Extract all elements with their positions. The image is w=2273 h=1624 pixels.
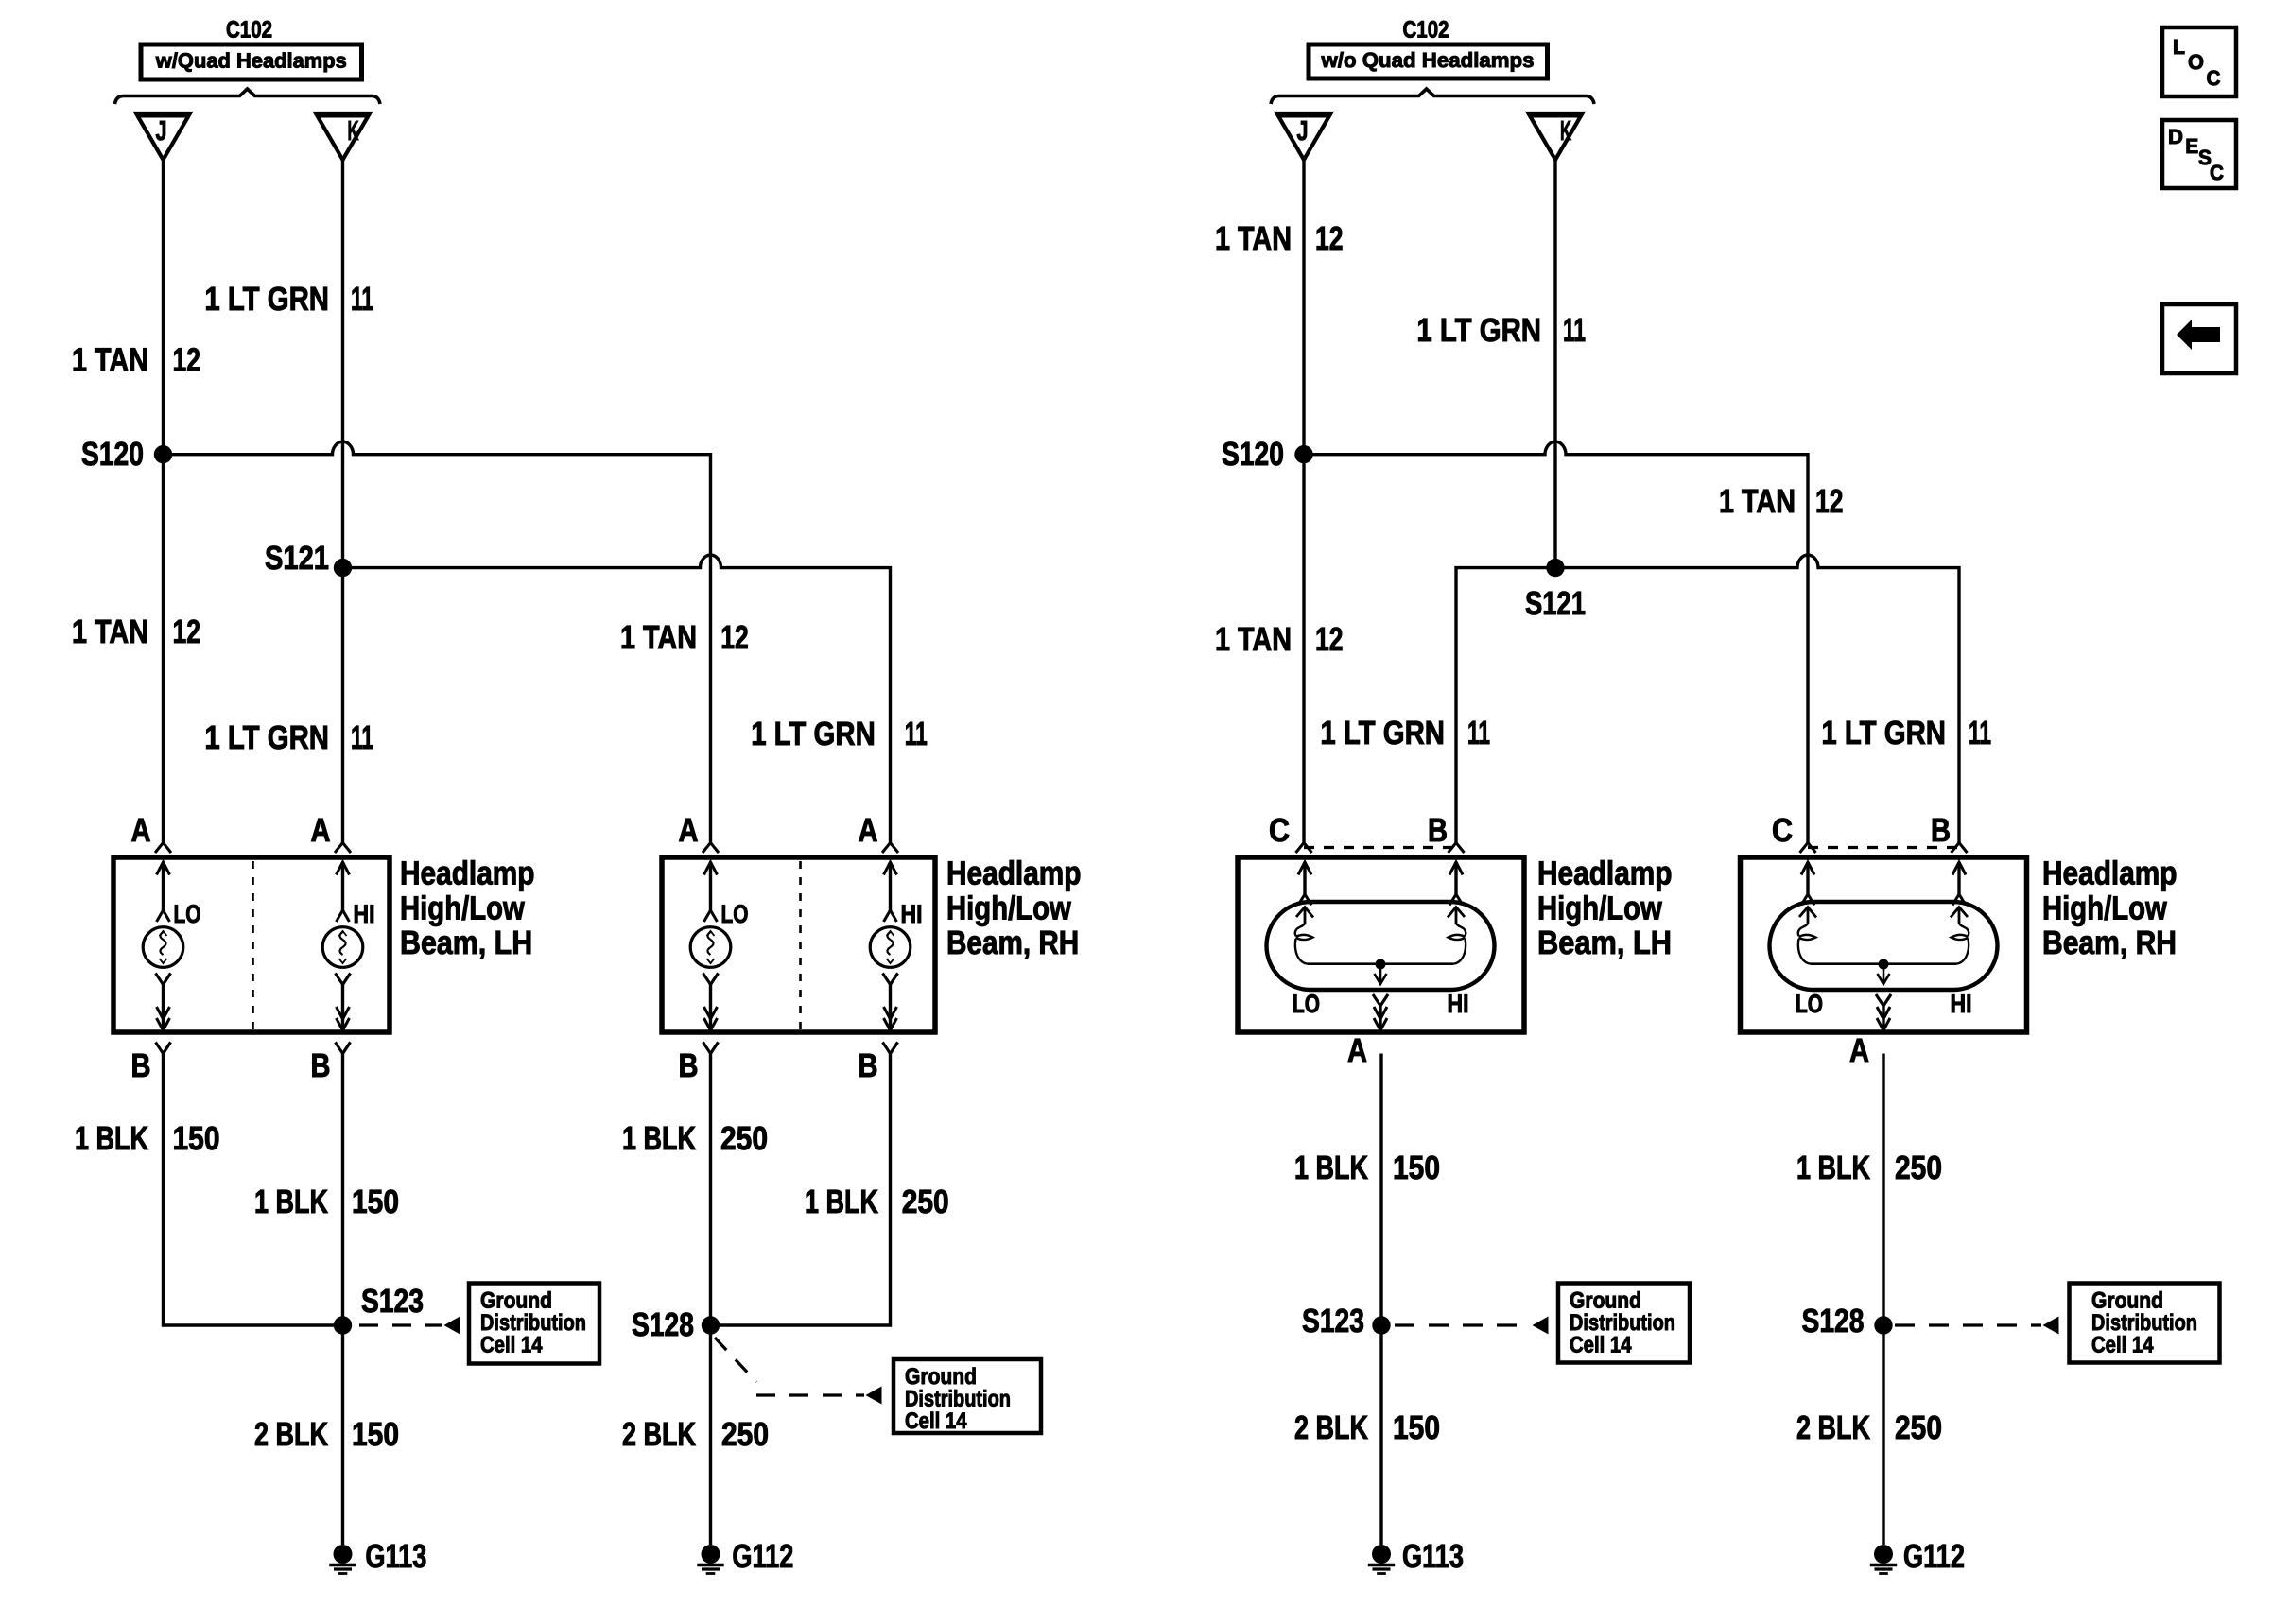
svg-text:2 BLK: 2 BLK: [622, 1416, 696, 1453]
svg-text:L: L: [2173, 35, 2185, 59]
svg-text:11: 11: [351, 281, 373, 318]
dashed pin link C-B (right RH lamp): [1808, 846, 1959, 849]
connector pin K (right): [1529, 113, 1583, 160]
svg-text:w/o Quad Headlamps: w/o Quad Headlamps: [1320, 48, 1534, 72]
wire S121 left branch to LH pin B column: [1456, 568, 1555, 843]
svg-text:11: 11: [905, 716, 928, 752]
connector box w/Quad Headlamps: [141, 44, 362, 79]
brace under C102 (left): [115, 89, 381, 104]
svg-text:S121: S121: [1525, 585, 1586, 622]
svg-text:B: B: [311, 1047, 331, 1084]
svg-text:2 BLK: 2 BLK: [1294, 1409, 1368, 1446]
svg-text:LO: LO: [1293, 990, 1320, 1018]
DESC icon box: [2162, 120, 2236, 188]
wire J to headlamp LH pin A (1 TAN 12): [162, 160, 165, 843]
svg-text:Cell 14: Cell 14: [1570, 1333, 1632, 1358]
splice S128 (right): [1874, 1316, 1892, 1334]
ground distribution cell 14 box (right LH): [1558, 1284, 1690, 1363]
headlamp High/Low Beam LH (single): [1238, 857, 1524, 1032]
svg-text:Cell 14: Cell 14: [2091, 1333, 2154, 1358]
svg-text:1 LT GRN: 1 LT GRN: [204, 281, 329, 318]
svg-text:Headlamp: Headlamp: [1537, 855, 1673, 892]
ground distribution cell 14 box (left): [469, 1284, 599, 1364]
svg-text:Beam, LH: Beam, LH: [400, 924, 532, 961]
svg-text:250: 250: [721, 1416, 769, 1453]
svg-text:150: 150: [352, 1416, 399, 1453]
ground G113 (left): [334, 1545, 353, 1564]
svg-text:150: 150: [352, 1183, 399, 1220]
svg-text:LO: LO: [174, 900, 201, 928]
headlamp High/Low Beam LH (quad): [113, 857, 390, 1032]
svg-text:High/Low: High/Low: [1537, 890, 1662, 926]
svg-text:Beam, LH: Beam, LH: [1537, 924, 1672, 961]
svg-text:12: 12: [720, 619, 749, 656]
svg-text:C: C: [2210, 161, 2224, 184]
svg-text:J: J: [1297, 116, 1309, 147]
svg-text:C: C: [1269, 812, 1290, 849]
ground distribution cell 14 box (right RH): [2070, 1284, 2220, 1363]
svg-text:150: 150: [1393, 1149, 1440, 1186]
svg-text:250: 250: [1895, 1409, 1942, 1446]
svg-text:HI: HI: [901, 900, 923, 928]
svg-text:A: A: [859, 812, 878, 849]
wire K to headlamp LH pin A (1 LT GRN 11): [341, 160, 344, 843]
connector pin K (left): [316, 113, 370, 160]
svg-text:S120: S120: [81, 436, 144, 473]
svg-text:11: 11: [1563, 312, 1586, 349]
svg-text:1 TAN: 1 TAN: [1215, 220, 1292, 257]
dashed reference arrow S123 right: [1395, 1323, 1531, 1326]
wire K down to splice S121 (1 LT GRN 11): [1553, 160, 1556, 568]
ground distribution cell 14 box (quad): [894, 1359, 1041, 1433]
svg-text:S123: S123: [1302, 1303, 1364, 1339]
wire LH-HI pin B to S123/G113 (1 BLK 150): [336, 1043, 351, 1054]
svg-text:O: O: [2188, 50, 2204, 74]
svg-text:11: 11: [351, 719, 373, 756]
svg-text:Cell 14: Cell 14: [480, 1333, 543, 1358]
wire J to headlamp LH pin C (1 TAN 12): [1302, 160, 1305, 843]
wire LH pin A to S123/G113 (1 BLK 150): [1379, 1054, 1382, 1546]
svg-text:G112: G112: [732, 1538, 793, 1575]
svg-text:250: 250: [720, 1120, 768, 1157]
svg-text:LO: LO: [721, 900, 749, 928]
svg-text:Headlamp: Headlamp: [400, 855, 535, 892]
wire RH-HI pin B to S128 (1 BLK 250): [883, 1043, 898, 1054]
svg-text:A: A: [1347, 1032, 1367, 1069]
connector pin J (right): [1277, 113, 1331, 160]
svg-text:B: B: [1428, 812, 1448, 849]
svg-text:A: A: [131, 812, 151, 849]
svg-text:1 LT GRN: 1 LT GRN: [1320, 715, 1445, 752]
svg-text:HI: HI: [354, 900, 375, 928]
svg-text:1 BLK: 1 BLK: [805, 1183, 878, 1220]
svg-text:1 TAN: 1 TAN: [620, 619, 697, 656]
svg-text:E: E: [2185, 134, 2198, 158]
wire S120 to RH lamp pin C column (hops over K wire): [1304, 441, 1808, 842]
wire S121 to RH lamp HI column (hops over LO column): [343, 555, 891, 842]
brace under C102 (right): [1271, 89, 1594, 104]
dashed pin link C-B (right LH lamp): [1304, 846, 1456, 849]
wire S120 to RH lamp LO column (hops over K wire): [164, 441, 711, 842]
svg-text:250: 250: [1895, 1149, 1942, 1186]
svg-text:1 BLK: 1 BLK: [254, 1183, 328, 1220]
splice S121 (left): [334, 559, 352, 577]
svg-text:Cell 14: Cell 14: [905, 1408, 967, 1434]
splice S120 (right): [1294, 445, 1312, 463]
svg-text:A: A: [679, 812, 699, 849]
svg-text:1 LT GRN: 1 LT GRN: [1416, 312, 1541, 349]
svg-text:12: 12: [1815, 483, 1844, 520]
ground G112 (quad): [702, 1545, 720, 1564]
svg-text:1 LT GRN: 1 LT GRN: [1821, 715, 1946, 752]
svg-text:12: 12: [1315, 621, 1344, 658]
wire LH-LO pin B to S123 (1 BLK 150): [156, 1043, 171, 1054]
svg-text:1 TAN: 1 TAN: [72, 613, 148, 650]
svg-text:w/Quad Headlamps: w/Quad Headlamps: [155, 49, 347, 73]
svg-text:1 BLK: 1 BLK: [1796, 1149, 1870, 1186]
svg-text:J: J: [156, 116, 167, 147]
svg-text:B: B: [1931, 812, 1951, 849]
svg-text:1 LT GRN: 1 LT GRN: [204, 719, 329, 756]
svg-text:11: 11: [1969, 715, 1991, 752]
headlamp High/Low Beam RH (single): [1741, 857, 2027, 1032]
svg-text:2 BLK: 2 BLK: [1796, 1409, 1870, 1446]
connector pin J (left): [136, 113, 190, 160]
svg-text:250: 250: [902, 1183, 949, 1220]
svg-text:B: B: [859, 1047, 878, 1084]
svg-text:1 TAN: 1 TAN: [1215, 621, 1292, 658]
wire RH pin A to S128/G112 (1 BLK 250): [1882, 1054, 1884, 1546]
svg-text:HI: HI: [1448, 990, 1469, 1018]
svg-text:1 TAN: 1 TAN: [72, 342, 148, 379]
svg-text:B: B: [131, 1047, 151, 1084]
svg-text:C: C: [1772, 812, 1793, 849]
svg-text:Beam, RH: Beam, RH: [946, 924, 1079, 961]
dashed reference arrow S128 right: [1895, 1323, 2041, 1326]
svg-text:12: 12: [1315, 220, 1344, 257]
svg-text:12: 12: [173, 613, 201, 650]
svg-text:150: 150: [173, 1120, 220, 1157]
splice S120 (left): [154, 445, 172, 463]
dashed reference arrow S128 to Ground Distribution (diagonal): [715, 1338, 756, 1382]
svg-text:S128: S128: [632, 1306, 694, 1343]
svg-text:S123: S123: [361, 1283, 424, 1320]
svg-text:S121: S121: [265, 540, 329, 577]
splice S128 (quad): [702, 1316, 720, 1334]
svg-text:Headlamp: Headlamp: [2042, 855, 2178, 892]
svg-text:C102: C102: [226, 17, 272, 43]
svg-text:K: K: [348, 116, 359, 147]
svg-text:High/Low: High/Low: [946, 890, 1071, 926]
svg-text:C: C: [2207, 66, 2221, 90]
headlamp High/Low Beam RH (quad): [662, 857, 935, 1032]
svg-text:1 TAN: 1 TAN: [1719, 483, 1796, 520]
dashed reference arrow S123 to Ground Distribution: [359, 1323, 442, 1326]
svg-text:High/Low: High/Low: [400, 890, 525, 926]
svg-text:S128: S128: [1802, 1303, 1865, 1339]
svg-text:Headlamp: Headlamp: [946, 855, 1082, 892]
svg-text:A: A: [1849, 1032, 1869, 1069]
svg-text:K: K: [1560, 116, 1571, 147]
splice S121 (right): [1546, 559, 1564, 577]
svg-text:12: 12: [173, 342, 201, 379]
svg-text:B: B: [679, 1047, 699, 1084]
svg-text:1 BLK: 1 BLK: [75, 1120, 148, 1157]
svg-text:High/Low: High/Low: [2042, 890, 2167, 926]
svg-text:Beam, RH: Beam, RH: [2042, 924, 2177, 961]
svg-text:G113: G113: [1402, 1538, 1464, 1575]
svg-text:1 BLK: 1 BLK: [622, 1120, 696, 1157]
connector box w/o Quad Headlamps: [1309, 44, 1548, 78]
svg-text:G113: G113: [365, 1538, 426, 1575]
wire RH-LO pin B to S128 (1 BLK 250): [703, 1043, 719, 1054]
svg-text:D: D: [2168, 125, 2183, 148]
back arrow icon box: [2162, 304, 2236, 373]
svg-text:LO: LO: [1796, 990, 1823, 1018]
svg-text:11: 11: [1467, 715, 1490, 752]
svg-text:C102: C102: [1403, 17, 1449, 43]
svg-text:2 BLK: 2 BLK: [254, 1416, 328, 1453]
svg-text:S120: S120: [1222, 436, 1284, 473]
splice S123 (right): [1372, 1316, 1390, 1334]
LOC icon box: [2162, 27, 2236, 96]
wire S121 right branch to RH pin B column (hops over C column): [1555, 555, 1959, 842]
svg-text:1 BLK: 1 BLK: [1294, 1149, 1368, 1186]
svg-text:1 LT GRN: 1 LT GRN: [751, 716, 876, 752]
svg-text:G112: G112: [1903, 1538, 1965, 1575]
svg-text:A: A: [311, 812, 331, 849]
ground G112 (right): [1874, 1545, 1893, 1564]
splice S123 (left): [334, 1316, 352, 1334]
ground G113 (right): [1372, 1545, 1391, 1564]
svg-text:150: 150: [1393, 1409, 1440, 1446]
svg-text:HI: HI: [1951, 990, 1972, 1018]
